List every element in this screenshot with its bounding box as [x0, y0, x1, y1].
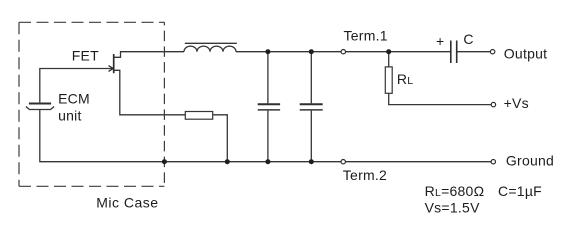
svg-text:FET: FET — [72, 47, 99, 63]
svg-text:RL=680Ω: RL=680Ω — [425, 183, 485, 199]
svg-text:ECM: ECM — [58, 90, 90, 106]
svg-text:Term.1: Term.1 — [344, 27, 388, 43]
svg-text:Term.2: Term.2 — [343, 167, 387, 183]
svg-text:unit: unit — [58, 107, 82, 123]
svg-text:Ground: Ground — [506, 153, 554, 169]
svg-text:Output: Output — [504, 46, 548, 62]
svg-text:Mic Case: Mic Case — [96, 195, 158, 211]
svg-text:C=1µF: C=1µF — [498, 183, 542, 199]
svg-text:+Vs: +Vs — [504, 95, 529, 111]
svg-text:Vs=1.5V: Vs=1.5V — [425, 200, 480, 216]
svg-text:C: C — [463, 31, 473, 47]
svg-text:+: + — [436, 33, 444, 49]
